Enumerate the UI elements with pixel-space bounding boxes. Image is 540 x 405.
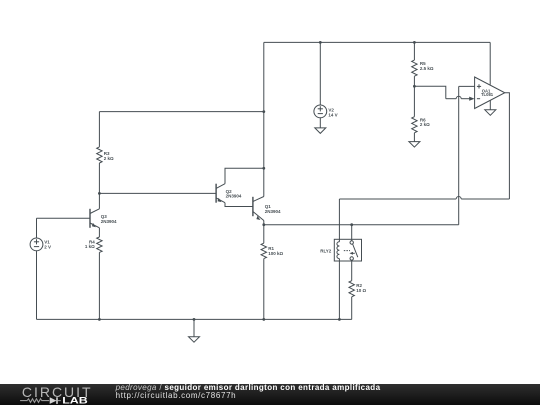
resistor R6 — [412, 117, 417, 133]
node left rail to trunk junction — [262, 110, 265, 113]
svg-text:2N3904: 2N3904 — [226, 194, 242, 199]
wire bottom rail — [37, 318, 352, 320]
svg-text:RLY2: RLY2 — [320, 248, 332, 253]
node ground stub — [193, 318, 196, 321]
ground R6 — [409, 142, 420, 148]
wire V1 bottom — [36, 251, 38, 320]
resistor R2 — [349, 281, 354, 297]
ground op-amp — [485, 100, 496, 115]
wire plus input — [459, 85, 475, 87]
wire emitter rail — [264, 224, 459, 226]
wire R4 bottom — [98, 252, 100, 319]
svg-text:2 kΩ: 2 kΩ — [104, 156, 114, 161]
node R4 to bottom rail — [98, 318, 101, 321]
node R1 bottom rail — [262, 318, 265, 321]
svg-text:2 kΩ: 2 kΩ — [420, 122, 430, 127]
svg-text:2N3904: 2N3904 — [265, 209, 281, 214]
wire left top rail — [99, 111, 263, 113]
wire Q2 collector — [225, 168, 264, 183]
relay RLY2 — [320, 239, 361, 261]
svg-text:1 kΩ: 1 kΩ — [85, 244, 95, 249]
minus input arrowhead — [469, 97, 474, 101]
node emitter rail / R1 — [262, 223, 265, 226]
wire R3 bottom — [98, 163, 100, 193]
wire Q1 emitter down — [263, 221, 265, 225]
transistor Q1 — [253, 197, 281, 221]
wire op-amp V+ — [489, 42, 491, 84]
wire divider to minus input — [414, 86, 445, 98]
logo resistor zigzag — [20, 399, 49, 403]
resistor R1 — [261, 243, 266, 258]
wire R2 bottom — [351, 297, 353, 320]
svg-text:LAB: LAB — [62, 396, 88, 405]
footer title line — [116, 384, 381, 393]
svg-text:TL081: TL081 — [481, 92, 494, 97]
node relay switch to emitter rail — [350, 223, 353, 226]
ground bottom — [189, 319, 200, 342]
ground V2 — [315, 118, 326, 134]
svg-text:2N3904: 2N3904 — [101, 219, 117, 224]
wire Q3 collector — [98, 193, 100, 208]
voltage source V2 — [314, 42, 338, 117]
svg-text:100 kΩ: 100 kΩ — [268, 251, 283, 256]
wire Q3 base from V1 — [37, 217, 91, 219]
wire mid rail to Q2 base — [99, 192, 216, 194]
wire relay coil bottom — [338, 261, 340, 319]
node relay coil bottom rail — [338, 318, 341, 321]
resistor R4 — [97, 237, 102, 252]
wire op-amp output — [505, 93, 510, 199]
node R5 top rail — [413, 41, 416, 44]
resistor R5 — [412, 60, 417, 76]
op-amp OA1 — [475, 77, 505, 109]
wire trunk vertical — [263, 42, 265, 196]
wire R5 bottom to R6 top — [413, 76, 415, 117]
wire top rail — [264, 41, 490, 43]
resistor R3 — [97, 147, 102, 163]
node divider tap — [413, 85, 416, 88]
svg-text:14 V: 14 V — [328, 112, 337, 117]
wire R1 bottom — [263, 259, 265, 320]
wire Q2 emitter to Q1 base — [225, 203, 253, 207]
svg-text:2.5 kΩ: 2.5 kΩ — [420, 66, 434, 71]
wire relay switch bottom to R2 — [351, 260, 353, 281]
transistor Q2 — [216, 184, 242, 203]
node V2 top rail — [319, 41, 322, 44]
footer url line — [116, 392, 237, 401]
wire relay switch top — [351, 225, 353, 241]
node R3/Q3/rail junction — [98, 192, 101, 195]
wire output down to relay coil — [338, 199, 340, 239]
footer bar — [0, 384, 540, 405]
wire R3 top — [98, 112, 100, 147]
wire R6 bottom — [413, 133, 415, 142]
voltage source V1 — [30, 218, 51, 251]
wire Q3 emitter to R4 — [98, 228, 100, 237]
node Q2 collector to trunk — [262, 167, 265, 170]
svg-text:2 V: 2 V — [44, 244, 51, 249]
svg-text:10 Ω: 10 Ω — [356, 288, 366, 293]
logo diode — [50, 398, 57, 405]
wire plus feedback vertical — [458, 86, 460, 224]
wire R5 top — [413, 42, 415, 60]
wire R1 top — [263, 225, 265, 244]
transistor Q3 — [90, 209, 117, 228]
